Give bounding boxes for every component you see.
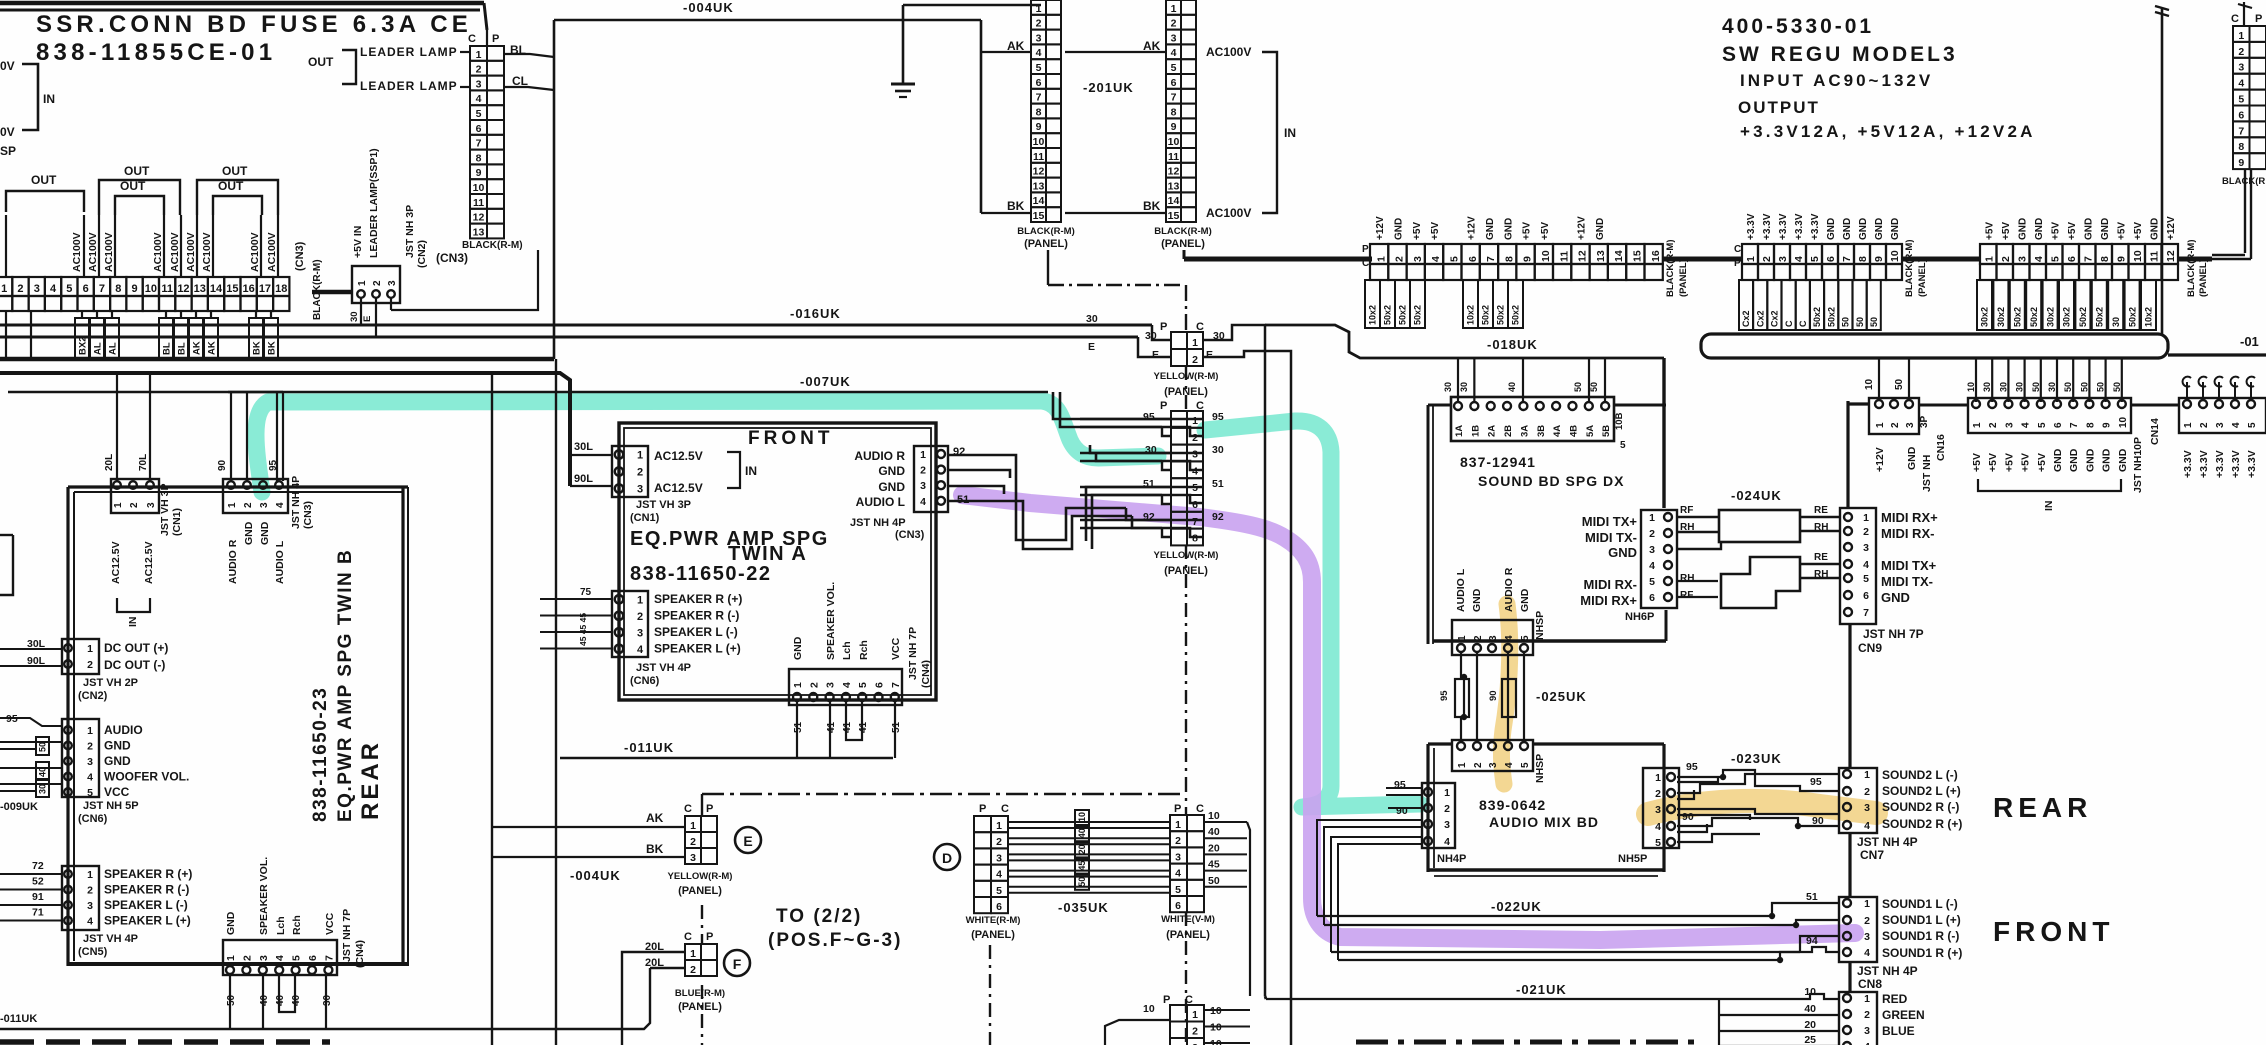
svg-text:MIDI TX-: MIDI TX- [1881, 574, 1933, 589]
svg-text:6: 6 [2238, 109, 2244, 121]
svg-text:2: 2 [243, 502, 254, 508]
svg-text:400-5330-01: 400-5330-01 [1722, 15, 1874, 38]
svg-text:11: 11 [2149, 251, 2161, 262]
svg-text:3P: 3P [1919, 415, 1930, 428]
svg-text:51: 51 [1212, 478, 1224, 490]
svg-text:BK: BK [1143, 199, 1161, 213]
svg-text:AK: AK [191, 341, 202, 355]
CN4B wires down [229, 974, 231, 1029]
sound bd MIDI connector NH6P [1641, 510, 1677, 608]
svg-text:3: 3 [1864, 802, 1870, 814]
svg-text:3A: 3A [1519, 425, 1530, 437]
svg-text:1: 1 [1864, 769, 1870, 781]
svg-text:(PANEL): (PANEL) [1917, 259, 1928, 297]
svg-text:VCC: VCC [104, 785, 130, 799]
svg-text:1: 1 [476, 49, 482, 61]
svg-text:C: C [1196, 803, 1204, 815]
svg-text:AUDIO R: AUDIO R [227, 539, 239, 584]
svg-text:+5V: +5V [2003, 453, 2015, 472]
svg-text:4: 4 [996, 869, 1002, 881]
audio mix bd outline [1426, 744, 1429, 872]
svg-text:2: 2 [996, 836, 1002, 848]
svg-text:4: 4 [2033, 256, 2045, 262]
svg-text:4: 4 [87, 772, 93, 784]
svg-text:SPEAKER VOL.: SPEAKER VOL. [825, 582, 837, 660]
svg-text:30x2: 30x2 [1980, 307, 1990, 327]
CN14 drops from pipe [1975, 358, 1977, 402]
svg-text:1: 1 [690, 948, 696, 960]
svg-text:(CN3): (CN3) [436, 251, 468, 265]
svg-text:IN: IN [43, 92, 55, 106]
svg-text:SPEAKER L (-): SPEAKER L (-) [104, 898, 188, 912]
connector CN5 TWIN B [62, 866, 99, 930]
svg-text:1: 1 [225, 955, 237, 961]
board TWIN B outline [66, 487, 69, 966]
svg-text:50x2: 50x2 [2013, 307, 2023, 327]
svg-text:6: 6 [83, 283, 89, 295]
svg-text:E: E [362, 316, 373, 322]
svg-text:1: 1 [1972, 422, 1983, 428]
svg-text:Rch: Rch [858, 640, 870, 660]
svg-text:YELLOW(R-M): YELLOW(R-M) [668, 871, 733, 882]
16p thick stub left [1184, 257, 1370, 262]
connector CN7 [1839, 768, 1877, 833]
highlight purple path [962, 495, 1855, 940]
svg-text:3: 3 [1864, 1025, 1870, 1037]
svg-text:-009UK: -009UK [0, 801, 38, 813]
svg-text:3: 3 [1649, 544, 1655, 556]
svg-text:6: 6 [1036, 77, 1042, 89]
svg-text:6: 6 [2066, 256, 2078, 262]
svg-text:2: 2 [1036, 18, 1042, 30]
svg-text:2: 2 [1192, 432, 1198, 444]
svg-text:IN: IN [745, 464, 757, 478]
svg-text:+5V: +5V [2116, 222, 2127, 240]
svg-text:1: 1 [227, 502, 238, 508]
svg-text:MIDI TX-: MIDI TX- [1585, 530, 1637, 545]
svg-text:5: 5 [2050, 256, 2062, 262]
svg-text:90L: 90L [574, 473, 593, 485]
connector CN1 TWIN A [612, 446, 648, 497]
svg-text:AC100V: AC100V [266, 232, 278, 272]
svg-text:Cx2: Cx2 [1770, 310, 1780, 327]
connector CN1 TWIN B [111, 479, 159, 513]
svg-text:AC100V: AC100V [87, 232, 99, 272]
CP down wires to bus [2244, 170, 2246, 253]
svg-text:JST NH10P: JST NH10P [2132, 437, 2144, 493]
svg-text:7: 7 [1192, 516, 1198, 528]
svg-text:50: 50 [2063, 382, 2073, 392]
-021UK wire corner [1265, 996, 1266, 999]
left margin connector fragment [0, 534, 13, 536]
svg-text:7: 7 [2238, 125, 2244, 137]
16p label boxes group1 [1365, 280, 1380, 328]
svg-text:SOUND1 R (+): SOUND1 R (+) [1882, 946, 1962, 960]
svg-text:1: 1 [1863, 512, 1869, 524]
svg-text:GND: GND [1519, 588, 1531, 612]
svg-text:SOUND2 L (+): SOUND2 L (+) [1882, 784, 1961, 798]
svg-text:15: 15 [226, 283, 238, 295]
svg-text:17: 17 [259, 283, 271, 295]
svg-text:+3.3V: +3.3V [2246, 450, 2258, 478]
svg-text:30: 30 [1982, 382, 1992, 392]
svg-text:8: 8 [1192, 533, 1198, 545]
svg-text:50: 50 [1573, 382, 1583, 392]
svg-text:5: 5 [1520, 762, 1531, 768]
svg-text:3: 3 [2215, 422, 2226, 428]
svg-text:5: 5 [476, 108, 482, 120]
svg-text:4: 4 [274, 955, 286, 961]
svg-text:-023UK: -023UK [1731, 751, 1782, 766]
svg-text:9: 9 [2102, 422, 2113, 428]
svg-text:0V: 0V [0, 59, 15, 73]
svg-text:50: 50 [1855, 317, 1865, 327]
vertical from pipe to top edge [2161, 8, 2164, 334]
svg-text:5: 5 [857, 682, 869, 688]
svg-text:30: 30 [38, 784, 48, 794]
svg-text:JST NH 5P: JST NH 5P [83, 800, 139, 812]
svg-text:10: 10 [1540, 250, 1552, 262]
svg-text:(PANEL): (PANEL) [678, 1001, 722, 1013]
svg-text:NH6P: NH6P [1625, 611, 1654, 623]
svg-text:GND: GND [2052, 448, 2064, 472]
8P left wires staggered [1080, 418, 1171, 420]
svg-text:50x2: 50x2 [1826, 307, 1836, 327]
VM wires right [1204, 821, 1247, 823]
svg-text:9: 9 [1522, 256, 1534, 262]
svg-text:VCC: VCC [324, 912, 336, 935]
svg-text:AC100V: AC100V [1206, 206, 1251, 220]
svg-text:4: 4 [1036, 47, 1042, 59]
svg-text:45: 45 [1208, 859, 1220, 871]
svg-text:3: 3 [34, 283, 40, 295]
svg-text:1: 1 [1192, 337, 1198, 349]
svg-text:10: 10 [1168, 136, 1180, 148]
svg-text:1: 1 [1655, 772, 1661, 784]
svg-text:50x2: 50x2 [2095, 307, 2105, 327]
svg-text:2: 2 [17, 283, 23, 295]
svg-text:3: 3 [1863, 542, 1869, 554]
svg-text:BK: BK [1007, 199, 1025, 213]
ground wire [902, 5, 905, 84]
svg-text:2: 2 [1761, 256, 1773, 262]
svg-text:10: 10 [1208, 810, 1220, 822]
svg-text:3: 3 [1488, 762, 1499, 768]
thick stub 12p right [2178, 257, 2212, 262]
svg-text:1: 1 [792, 682, 804, 688]
svg-text:2: 2 [1394, 256, 1406, 262]
svg-text:BLACK(R-M): BLACK(R-M) [1017, 226, 1075, 237]
vertical wires from CN6B [491, 373, 493, 1045]
svg-text:OUT: OUT [31, 173, 57, 187]
svg-text:SPEAKER VOL.: SPEAKER VOL. [258, 857, 270, 935]
svg-text:51: 51 [793, 721, 804, 733]
svg-text:90: 90 [1396, 805, 1408, 817]
mix bd right connector NH5P [1643, 768, 1679, 848]
wires 30 E to verticals [1203, 325, 1265, 996]
svg-text:(CN2): (CN2) [416, 240, 428, 268]
svg-text:C: C [684, 931, 692, 943]
svg-text:50x2: 50x2 [1496, 305, 1506, 325]
svg-text:3: 3 [1488, 635, 1499, 641]
svg-text:9: 9 [1171, 121, 1177, 133]
svg-text:SPEAKER R (-): SPEAKER R (-) [104, 883, 189, 897]
connector CN4 TWIN A bottom [789, 669, 902, 705]
svg-text:+12V: +12V [1874, 447, 1886, 472]
svg-text:1: 1 [1864, 993, 1870, 1005]
svg-text:GREEN: GREEN [1882, 1008, 1925, 1022]
svg-text:3: 3 [825, 682, 837, 688]
svg-text:2: 2 [2199, 422, 2210, 428]
svg-text:4: 4 [1430, 256, 1442, 262]
svg-text:AUDIO L: AUDIO L [856, 495, 905, 509]
svg-text:GND: GND [2100, 218, 2111, 240]
svg-text:BK: BK [251, 341, 262, 355]
svg-text:12: 12 [177, 283, 189, 295]
svg-text:DC OUT (+): DC OUT (+) [104, 641, 168, 655]
svg-text:NHSP: NHSP [1534, 754, 1546, 783]
svg-text:4: 4 [920, 496, 926, 508]
svg-text:1: 1 [1457, 762, 1468, 768]
svg-text:BK: BK [266, 341, 277, 355]
svg-text:30x2: 30x2 [2062, 307, 2072, 327]
svg-text:1: 1 [1192, 415, 1198, 427]
svg-text:RED: RED [1882, 992, 1908, 1006]
svg-text:6: 6 [307, 955, 319, 961]
-023UK companion pair lines [1677, 776, 1718, 782]
svg-text:BLUE: BLUE [1882, 1024, 1915, 1038]
pair 30 into pins 3-4 [1090, 445, 1203, 453]
-201UK connector right strip [1166, 0, 1181, 15]
svg-text:10: 10 [2118, 416, 2129, 428]
thick stub 16p to 10p [1663, 257, 1742, 262]
svg-text:P: P [1160, 400, 1167, 412]
svg-text:(PANEL): (PANEL) [2198, 259, 2209, 297]
svg-text:30: 30 [322, 994, 333, 1006]
svg-text:40: 40 [1507, 382, 1517, 392]
12p label boxes [1977, 280, 1992, 330]
svg-text:2: 2 [2238, 46, 2244, 58]
svg-text:GND: GND [104, 754, 131, 768]
svg-text:50x2: 50x2 [2078, 307, 2088, 327]
svg-text:51: 51 [1806, 891, 1818, 903]
svg-text:SOUND2 R (-): SOUND2 R (-) [1882, 800, 1959, 814]
svg-text:BL: BL [176, 342, 187, 355]
svg-text:7: 7 [476, 138, 482, 150]
svg-text:2: 2 [1988, 422, 1999, 428]
svg-text:8: 8 [115, 283, 121, 295]
svg-text:7: 7 [1863, 607, 1869, 619]
svg-text:+5V: +5V [1430, 222, 1441, 240]
svg-text:5: 5 [1863, 573, 1869, 585]
svg-text:1: 1 [1984, 256, 1996, 262]
svg-text:RH: RH [1680, 573, 1694, 584]
svg-text:45 45 45: 45 45 45 [578, 613, 588, 646]
svg-text:2: 2 [808, 682, 820, 688]
svg-text:50: 50 [226, 994, 237, 1006]
connector CN6 TWIN B [62, 719, 99, 797]
connector CN16 [1869, 398, 1919, 434]
svg-text:18: 18 [275, 283, 287, 295]
svg-text:GND: GND [1471, 588, 1483, 612]
svg-text:SOUND BD SPG DX: SOUND BD SPG DX [1478, 473, 1624, 489]
svg-text:AK: AK [206, 341, 217, 355]
svg-text:95: 95 [1212, 411, 1224, 423]
svg-text:IN: IN [1284, 126, 1296, 140]
svg-text:JST NH 4P: JST NH 4P [290, 476, 302, 529]
svg-text:40: 40 [1208, 826, 1220, 838]
wire GND pin3 [1677, 542, 1721, 549]
svg-text:4A: 4A [1552, 425, 1563, 437]
svg-text:2: 2 [476, 64, 482, 76]
svg-text:+12V: +12V [1467, 216, 1478, 240]
svg-text:(CN2): (CN2) [78, 690, 108, 702]
svg-text:(PANEL): (PANEL) [1024, 238, 1068, 250]
svg-text:C: C [1734, 244, 1741, 255]
svg-text:GND: GND [1595, 218, 1606, 240]
svg-text:GND: GND [2084, 448, 2096, 472]
svg-text:2: 2 [1444, 803, 1450, 815]
svg-text:1: 1 [113, 502, 124, 508]
svg-text:P: P [2255, 13, 2262, 25]
svg-text:3: 3 [996, 852, 1002, 864]
svg-text:0V: 0V [0, 125, 15, 139]
svg-text:1: 1 [1171, 3, 1177, 15]
svg-text:12: 12 [1168, 166, 1180, 178]
svg-text:50x2: 50x2 [1481, 305, 1491, 325]
svg-text:11: 11 [1558, 251, 1570, 262]
svg-text:4: 4 [637, 644, 644, 656]
svg-text:NHSP: NHSP [1534, 611, 1546, 640]
svg-text:50x2: 50x2 [2029, 307, 2039, 327]
svg-text:3: 3 [1777, 256, 1789, 262]
svg-text:5: 5 [2037, 422, 2048, 428]
svg-text:2: 2 [129, 502, 140, 508]
svg-text:+5V: +5V [1540, 222, 1551, 240]
svg-text:GND: GND [2017, 218, 2028, 240]
svg-text:10: 10 [473, 182, 485, 194]
svg-text:2: 2 [1192, 354, 1198, 366]
svg-text:C: C [1798, 320, 1808, 327]
svg-text:SP: SP [0, 144, 16, 158]
svg-text:6: 6 [1825, 256, 1837, 262]
svg-text:CN9: CN9 [1858, 641, 1882, 655]
svg-text:SOUND2 L (-): SOUND2 L (-) [1882, 768, 1958, 782]
svg-text:AK: AK [646, 811, 664, 825]
svg-text:14: 14 [1033, 195, 1045, 207]
svg-text:+5V: +5V [2036, 453, 2048, 472]
svg-text:4: 4 [1793, 256, 1805, 262]
svg-text:7: 7 [1036, 92, 1042, 104]
svg-text:50: 50 [2031, 382, 2041, 392]
10p label boxes [1739, 280, 1753, 330]
svg-text:2: 2 [1655, 788, 1661, 800]
svg-text:5: 5 [1520, 635, 1531, 641]
svg-text:-011UK: -011UK [624, 740, 674, 755]
leader lamp wires [460, 51, 470, 53]
svg-text:8: 8 [2085, 422, 2096, 428]
svg-text:4: 4 [1504, 635, 1515, 641]
svg-text:1: 1 [1864, 898, 1870, 910]
svg-text:14: 14 [1168, 195, 1180, 207]
svg-text:10x2: 10x2 [1466, 305, 1476, 325]
svg-text:3: 3 [1175, 851, 1181, 863]
svg-text:1: 1 [87, 869, 93, 881]
svg-text:7: 7 [323, 955, 335, 961]
svg-text:3: 3 [2238, 62, 2244, 74]
svg-text:GND: GND [1858, 218, 1869, 240]
-201UK connector left strip [1031, 0, 1046, 15]
svg-text:2: 2 [690, 964, 696, 976]
svg-text:2: 2 [372, 280, 383, 286]
bottom left dash line [0, 1039, 330, 1045]
svg-text:95: 95 [1439, 690, 1450, 701]
svg-text:+3.3V: +3.3V [1762, 213, 1773, 240]
svg-text:1: 1 [2238, 30, 2244, 42]
svg-text:GND: GND [243, 521, 255, 545]
svg-text:12: 12 [1033, 166, 1045, 178]
svg-text:30x2: 30x2 [1996, 307, 2006, 327]
svg-text:5B: 5B [1601, 425, 1612, 437]
svg-text:GND: GND [2149, 218, 2160, 240]
-035UK wire labels [1075, 810, 1089, 825]
svg-text:(PANEL): (PANEL) [971, 929, 1015, 941]
svg-text:4B: 4B [1568, 425, 1579, 437]
svg-text:OUT: OUT [222, 164, 248, 178]
svg-text:GND: GND [1485, 218, 1496, 240]
svg-text:8: 8 [1171, 106, 1177, 118]
thick bus to right power connectors [1184, 257, 1372, 262]
connector CN9 [1840, 508, 1876, 624]
svg-text:WHITE(V-M): WHITE(V-M) [1161, 914, 1215, 925]
svg-text:E: E [743, 833, 752, 849]
board TWIN A outline [619, 423, 936, 700]
svg-text:CN16: CN16 [1935, 434, 1947, 461]
svg-text:16: 16 [243, 283, 255, 295]
svg-text:2: 2 [1864, 915, 1870, 927]
svg-text:90: 90 [1488, 690, 1499, 701]
svg-text:WOOFER VOL.: WOOFER VOL. [104, 770, 189, 784]
svg-text:92: 92 [1212, 511, 1224, 523]
svg-text:30: 30 [1443, 382, 1453, 392]
svg-text:-016UK: -016UK [790, 306, 841, 321]
svg-text:71: 71 [32, 907, 44, 919]
svg-text:8: 8 [476, 152, 482, 164]
svg-text:5: 5 [1809, 256, 1821, 262]
svg-text:10x2: 10x2 [1368, 305, 1378, 325]
6p hooks above [2186, 382, 2188, 398]
svg-text:10: 10 [145, 283, 157, 295]
svg-text:E: E [1088, 341, 1095, 353]
svg-text:(PANEL): (PANEL) [1678, 259, 1689, 297]
svg-text:50: 50 [1077, 877, 1087, 887]
svg-text:13: 13 [1033, 180, 1045, 192]
svg-text:30: 30 [1212, 444, 1224, 456]
svg-text:30: 30 [1086, 313, 1098, 325]
svg-text:FRONT: FRONT [748, 428, 833, 449]
sound bd outline [1427, 405, 1430, 644]
svg-text:50x2: 50x2 [1398, 305, 1408, 325]
top wire right segment [903, 4, 1041, 7]
svg-text:+3.3V: +3.3V [2182, 450, 2194, 478]
svg-text:BLACK(R-M): BLACK(R-M) [1904, 239, 1915, 297]
dash-dot between panels [1185, 545, 1187, 778]
svg-text:2: 2 [1192, 1026, 1198, 1038]
svg-text:1: 1 [2183, 422, 2194, 428]
svg-text:3: 3 [637, 484, 643, 496]
CN9 thick wire up to bus [1846, 401, 1849, 508]
svg-text:(PANEL): (PANEL) [1164, 565, 1208, 577]
